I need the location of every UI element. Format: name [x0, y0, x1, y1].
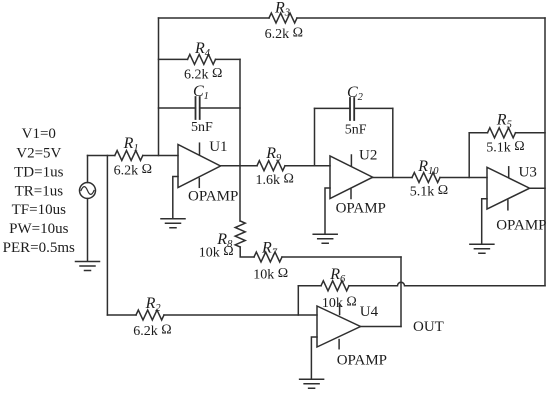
value 6.2k ohm R2 [133, 323, 171, 340]
ground U4 [300, 379, 324, 388]
svg-text:6.2k Ω: 6.2k Ω [114, 162, 152, 179]
U2 V- pin [350, 189, 352, 198]
svg-text:PW=10us: PW=10us [9, 221, 68, 237]
wire input row U1 [88, 155, 179, 157]
wire U2 output row [373, 177, 487, 179]
svg-text:U3: U3 [519, 165, 537, 181]
wire U1 plus input stub [173, 177, 178, 219]
resistor R5 [488, 128, 516, 138]
svg-text:OPAMP: OPAMP [337, 352, 387, 368]
label R9 [265, 145, 282, 164]
svg-text:R4: R4 [194, 40, 211, 59]
U4 V- pin [338, 340, 340, 349]
resistor R6 [321, 281, 349, 291]
wire C2 left vertical [314, 108, 316, 165]
wire top feedback from node A to right rail [159, 17, 546, 19]
value 6.2k ohm R3 [265, 26, 303, 43]
svg-text:5nF: 5nF [191, 120, 213, 135]
U3 V+ pin [508, 167, 510, 178]
ground U3 [470, 244, 494, 253]
U3 V- pin [507, 200, 509, 210]
label R10 [417, 158, 439, 177]
svg-text:TF=10us: TF=10us [12, 202, 66, 218]
op-amp U1 [178, 145, 221, 188]
svg-text:V1=0: V1=0 [22, 126, 56, 142]
label R7 [261, 240, 278, 259]
svg-text:R5: R5 [496, 112, 512, 131]
wire C2 right vertical [392, 108, 394, 177]
U4 V+ pin [339, 305, 341, 315]
value 5.1k ohm R5 [486, 139, 524, 156]
label U3 [519, 165, 537, 181]
op-amp U3 [487, 167, 530, 209]
op-amp U2 [330, 156, 373, 199]
wire R5 left vertical [468, 133, 470, 178]
wire U3 plus input stub [482, 199, 487, 244]
value 5.1k ohm R10 [410, 183, 448, 200]
svg-text:R6: R6 [329, 266, 346, 285]
label OPAMP U2 [336, 200, 386, 216]
U2 V+ pin [350, 155, 352, 166]
label R8 [216, 231, 233, 250]
svg-text:OPAMP: OPAMP [188, 189, 238, 205]
label OPAMP U4 [337, 352, 387, 368]
ground U2 [313, 234, 337, 243]
label U4 [360, 304, 379, 320]
wire U1 output row [221, 165, 331, 167]
label R4 [194, 40, 211, 59]
svg-text:R10: R10 [417, 158, 439, 177]
value 6.2k ohm R1 [114, 162, 152, 179]
svg-text:U1: U1 [209, 139, 227, 155]
svg-text:U4: U4 [360, 304, 379, 320]
wire U4 output [361, 326, 402, 328]
svg-text:U2: U2 [359, 148, 377, 164]
capacitor C1 [196, 97, 200, 119]
label OPAMP U1 [188, 189, 238, 205]
ground U1 [161, 219, 185, 228]
svg-text:V2=5V: V2=5V [16, 146, 61, 162]
wire R4 branch [159, 58, 241, 60]
capacitor C2 [350, 98, 354, 120]
svg-text:TR=1us: TR=1us [15, 183, 64, 199]
wire R4C1 right vertical to R8 [239, 59, 241, 221]
wire R2 row to U4 input [107, 314, 317, 316]
svg-text:5.1k Ω: 5.1k Ω [410, 183, 448, 200]
resistor R10 [412, 173, 440, 183]
label R1 [123, 135, 139, 154]
source parameter text block [3, 126, 75, 256]
label OPAMP U3 [496, 217, 546, 233]
svg-text:R7: R7 [261, 240, 278, 259]
resistor R4 [188, 54, 216, 64]
U1 V- pin [198, 178, 200, 187]
wire node A vertical [158, 18, 160, 156]
label U1 [209, 139, 227, 155]
op-amp U4 [317, 306, 361, 347]
U1 V+ pin [199, 143, 201, 154]
wire U2 plus input stub [325, 188, 330, 234]
resistor R8 vertical [235, 221, 245, 247]
svg-text:6.2k Ω: 6.2k Ω [184, 66, 222, 83]
value 5nF C1 [191, 120, 213, 135]
wire C1 branch [159, 107, 241, 109]
label OUT [413, 319, 444, 335]
svg-text:R2: R2 [145, 295, 162, 314]
label R2 [145, 295, 162, 314]
svg-text:6.2k Ω: 6.2k Ω [265, 26, 303, 43]
resistor R1 [115, 151, 143, 161]
svg-text:R9: R9 [265, 145, 282, 164]
svg-text:1.6k Ω: 1.6k Ω [256, 172, 294, 189]
svg-text:C1: C1 [193, 83, 209, 102]
svg-text:OPAMP: OPAMP [496, 217, 546, 233]
resistor R3 [269, 13, 297, 23]
value 10k ohm R7 [253, 266, 288, 283]
value 1.6k ohm R9 [256, 172, 294, 189]
wire R6 branch with hop over R7 drop [298, 282, 545, 286]
wire right rail vertical [544, 18, 546, 286]
svg-text:10k Ω: 10k Ω [199, 244, 234, 261]
svg-text:TD=1us: TD=1us [14, 165, 63, 181]
wire R5 branch [469, 132, 545, 134]
label R3 [274, 0, 290, 19]
wire C2 branch [315, 107, 393, 109]
svg-text:C2: C2 [347, 84, 364, 103]
svg-text:6.2k Ω: 6.2k Ω [133, 323, 171, 340]
resistor R7 [254, 252, 282, 262]
wire R8 bottom to R7 [240, 247, 401, 257]
wire drop to R2 row [106, 156, 108, 316]
value 10k ohm R6 [322, 295, 357, 312]
svg-text:R1: R1 [123, 135, 139, 154]
svg-text:OPAMP: OPAMP [336, 200, 386, 216]
label U2 [359, 148, 377, 164]
svg-text:PER=0.5ms: PER=0.5ms [3, 240, 75, 256]
svg-text:10k Ω: 10k Ω [253, 266, 288, 283]
value 5nF C2 [345, 123, 367, 138]
label C1 [193, 83, 209, 102]
wire R6 left vertical to U4 input [297, 286, 299, 315]
value 6.2k ohm R4 [184, 66, 222, 83]
wire U4 plus input stub [311, 337, 317, 379]
label C2 [347, 84, 364, 103]
svg-text:5nF: 5nF [345, 123, 367, 138]
resistor R2 [136, 310, 164, 320]
label R5 [496, 112, 512, 131]
label R6 [329, 266, 346, 285]
svg-text:5.1k Ω: 5.1k Ω [486, 139, 524, 156]
resistor R9 [257, 161, 285, 171]
source V1 pulse [80, 156, 96, 262]
wire R7 down to U4 output [400, 257, 402, 327]
value 10k ohm R8 [199, 244, 234, 261]
wire U3 output [530, 187, 545, 189]
ground source [76, 262, 100, 271]
svg-text:OUT: OUT [413, 319, 444, 335]
svg-text:R3: R3 [274, 0, 290, 19]
